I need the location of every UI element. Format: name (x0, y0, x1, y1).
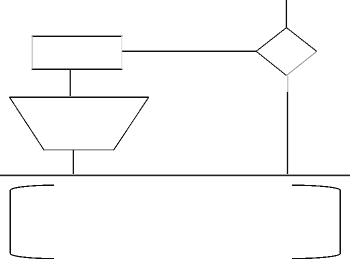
register rectangle (32, 36, 123, 70)
wire from register to diamond (122, 51, 256, 52)
wire stub below diamond (light) (287, 76, 289, 93)
bus line across full width (0, 175, 350, 177)
decision diamond (256, 28, 317, 76)
wire from diamond to bus (287, 92, 289, 175)
wire from register to mux (69, 69, 71, 98)
mux trapezoid (9, 97, 148, 151)
wire from top edge into decision diamond (285, 0, 287, 28)
wire from mux to bus (72, 150, 74, 175)
right bracket of bus component (292, 185, 340, 258)
left bracket of bus component (10, 185, 54, 258)
